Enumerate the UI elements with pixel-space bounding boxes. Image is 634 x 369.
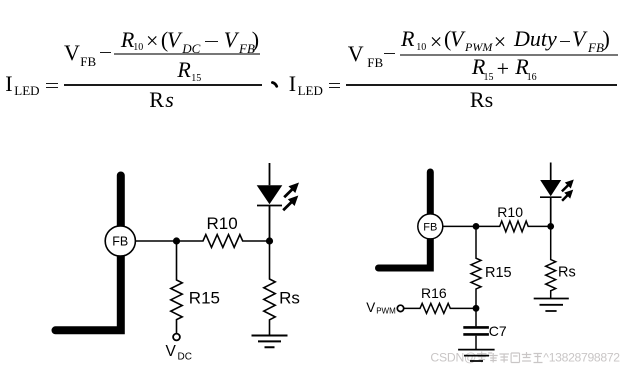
svg-text:FB: FB (112, 235, 128, 249)
svg-text:R10: R10 (207, 214, 238, 233)
svg-text:R15: R15 (189, 289, 220, 308)
svg-text:Rs: Rs (279, 289, 300, 308)
svg-text:R15: R15 (485, 265, 512, 281)
svg-text:@: @ (464, 351, 476, 365)
svg-text:^13828798872: ^13828798872 (543, 351, 620, 365)
svg-text:V: V (166, 343, 177, 360)
svg-text:DC: DC (178, 352, 192, 363)
svg-text:FB: FB (423, 221, 437, 233)
svg-text:Rs: Rs (558, 265, 576, 281)
svg-text:C7: C7 (489, 323, 507, 339)
svg-text:PWM: PWM (376, 306, 396, 315)
svg-text:V: V (366, 300, 375, 315)
svg-text:R16: R16 (421, 285, 447, 301)
svg-text:R10: R10 (497, 204, 523, 220)
svg-text:CSDN: CSDN (430, 351, 464, 365)
